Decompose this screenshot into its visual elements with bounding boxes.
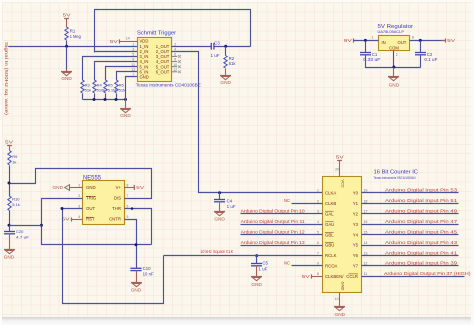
wire THR loop xyxy=(125,209,152,245)
svg-text:C3: C3 xyxy=(214,41,220,46)
capacitor C3 xyxy=(210,43,212,50)
svg-text:GAU: GAU xyxy=(325,222,334,227)
wire input pin 39 xyxy=(362,265,459,267)
svg-text:5V: 5V xyxy=(5,140,13,145)
junction divider/TRIG xyxy=(40,224,43,227)
wire C2 to ground rail xyxy=(420,56,422,68)
svg-text:Texas Instruments CD40106BE: Texas Instruments CD40106BE xyxy=(136,82,201,87)
wire NC to CLKB xyxy=(292,203,323,205)
svg-text:5V: 5V xyxy=(302,274,310,279)
power port 5V at V+ xyxy=(124,185,144,190)
svg-text:8: 8 xyxy=(127,183,129,187)
svg-text:18: 18 xyxy=(364,199,368,203)
svg-text:Y6: Y6 xyxy=(353,253,359,258)
svg-text:1 Meg: 1 Meg xyxy=(70,34,82,39)
ground below R1 xyxy=(66,70,68,72)
resistor R10 xyxy=(8,196,11,211)
svg-text:8: 8 xyxy=(317,272,319,276)
junction C3/R2 xyxy=(224,45,227,48)
wire input pin 45 xyxy=(362,234,459,236)
resistor R2 xyxy=(224,56,227,69)
svg-text:GND: GND xyxy=(4,255,15,260)
svg-text:4.7 uF: 4.7 uF xyxy=(16,235,30,240)
svg-text:7: 7 xyxy=(127,194,129,198)
counter pin names xyxy=(325,180,359,291)
ground below R2 xyxy=(225,69,227,76)
svg-text:3: 3 xyxy=(317,210,319,214)
svg-text:51k: 51k xyxy=(229,61,237,66)
capacitor C4 xyxy=(219,193,221,200)
svg-text:2: 2 xyxy=(317,199,319,203)
svg-text:6_OUT: 6_OUT xyxy=(156,69,170,74)
wire ground bus xyxy=(83,99,126,101)
wire RCLK clock line xyxy=(164,255,323,257)
wire Schmitt 1_OUT to C3 xyxy=(172,46,212,48)
svg-text:1: 1 xyxy=(78,183,80,187)
svg-text:GBL: GBL xyxy=(325,232,334,237)
svg-text:Y1: Y1 xyxy=(353,201,359,206)
junction C5 top xyxy=(255,254,258,257)
svg-text:OUT: OUT xyxy=(86,206,95,211)
svg-text:5V: 5V xyxy=(63,12,71,17)
wire Schmitt 3_IN to R3 xyxy=(83,57,138,81)
junction OUT corner xyxy=(61,207,64,210)
svg-text:5V: 5V xyxy=(136,185,144,190)
svg-text:1: 1 xyxy=(132,42,134,46)
junction R4 bus xyxy=(93,98,96,101)
svg-text:2: 2 xyxy=(396,53,398,57)
svg-text:16 Bit Counter IC: 16 Bit Counter IC xyxy=(374,169,419,175)
svg-text:V+: V+ xyxy=(116,185,122,190)
wire input pin 47 xyxy=(362,224,459,226)
wire signal node down to ground xyxy=(66,47,68,70)
svg-text:0.1 uF: 0.1 uF xyxy=(424,57,437,62)
svg-text:IN: IN xyxy=(382,40,386,45)
junction node A xyxy=(8,182,11,185)
wire TRIG to timing node xyxy=(42,199,152,245)
svg-text:5V: 5V xyxy=(110,39,118,44)
svg-text:5: 5 xyxy=(127,215,129,219)
svg-text:Y3: Y3 xyxy=(353,222,359,227)
svg-text:3: 3 xyxy=(132,47,134,51)
svg-text:1k: 1k xyxy=(12,160,16,165)
svg-text:Y4: Y4 xyxy=(353,232,359,237)
svg-text:6: 6 xyxy=(127,204,129,208)
svg-text:GND: GND xyxy=(341,282,346,291)
ground below regulator xyxy=(393,68,395,77)
wire counter GND pin xyxy=(339,293,341,307)
svg-text:Arduino Digital Output Pin 11: Arduino Digital Output Pin 11 xyxy=(241,219,305,224)
svg-text:C4: C4 xyxy=(227,198,233,203)
svg-text:4: 4 xyxy=(317,220,319,224)
svg-text:Arduino Digital Input Pin 41: Arduino Digital Input Pin 41 xyxy=(385,250,458,255)
svg-text:Arduino Digital Input Pin 53: Arduino Digital Input Pin 53 xyxy=(385,188,458,193)
ground below C5 xyxy=(256,266,258,277)
svg-text:1 uF: 1 uF xyxy=(211,53,220,58)
capacitor C5 xyxy=(256,256,258,264)
svg-text:14: 14 xyxy=(364,241,368,245)
junction C1 top xyxy=(364,39,367,42)
svg-text:17: 17 xyxy=(364,210,368,214)
svg-text:6_IN: 6_IN xyxy=(140,69,149,74)
power port 5V at CLKBEN xyxy=(311,274,313,278)
svg-text:R2: R2 xyxy=(229,56,235,61)
svg-text:COM: COM xyxy=(389,45,399,50)
no-connect pins 3_OUT-6_OUT xyxy=(172,55,181,73)
svg-text:Arduino Digital Input Pin 39: Arduino Digital Input Pin 39 xyxy=(385,261,458,266)
svg-text:8: 8 xyxy=(412,36,414,40)
svg-text:GBU: GBU xyxy=(325,243,334,248)
wire output pin 11 to counter xyxy=(241,224,323,226)
counter U4 SN74LV8154N body xyxy=(323,169,419,292)
svg-text:THR: THR xyxy=(112,206,121,211)
svg-text:5.1k: 5.1k xyxy=(12,202,20,207)
ground below resistor bus xyxy=(125,100,127,109)
svg-text:Arduino Digital Input Pin 47: Arduino Digital Input Pin 47 xyxy=(385,219,458,224)
wire input pin 41 xyxy=(362,255,459,257)
svg-text:Texas Instruments SN74LV8154N: Texas Instruments SN74LV8154N xyxy=(374,176,417,180)
svg-text:9V: 9V xyxy=(344,38,352,43)
wire input pin 51 xyxy=(362,203,459,205)
svg-text:Signal In (500Hz sq. wave): Signal In (500Hz sq. wave) xyxy=(3,42,9,116)
wire DIS to divider node A xyxy=(10,169,152,199)
resistor R1 xyxy=(65,27,68,40)
wire regulator OUT to 5V xyxy=(410,40,446,42)
svg-text:GND: GND xyxy=(86,185,96,190)
wire regulator COM to rail xyxy=(393,51,395,68)
wire signal input to Schmitt 1_IN xyxy=(9,46,138,48)
wire input pin 49 xyxy=(362,213,459,215)
resistor R6 xyxy=(115,80,118,93)
svg-text:16: 16 xyxy=(364,220,368,224)
svg-text:Schmitt Trigger: Schmitt Trigger xyxy=(137,30,176,36)
svg-text:Arduino Digital Input Pin 43: Arduino Digital Input Pin 43 xyxy=(385,240,458,245)
wire node B to TRIG riser xyxy=(10,225,42,227)
svg-text:Arduino Digital Output Pin 10: Arduino Digital Output Pin 10 xyxy=(241,208,305,213)
svg-text:13: 13 xyxy=(364,251,368,255)
svg-text:13: 13 xyxy=(131,68,135,72)
svg-text:GND: GND xyxy=(251,282,262,287)
wire Schmitt 5_IN to R5 xyxy=(106,67,138,81)
svg-text:GND: GND xyxy=(120,113,131,118)
svg-text:5: 5 xyxy=(132,53,134,57)
capacitor C1 xyxy=(365,41,367,53)
wire Schmitt 4_IN to R4 xyxy=(95,62,138,81)
svg-text:UA78L05ACLP: UA78L05ACLP xyxy=(378,29,405,34)
resistor R3 xyxy=(81,80,84,93)
svg-text:GND: GND xyxy=(61,76,72,81)
svg-text:C5: C5 xyxy=(262,261,268,266)
wire CCLR tie high xyxy=(362,276,465,278)
svg-text:1 uF: 1 uF xyxy=(227,204,236,209)
ground below counter xyxy=(339,306,341,308)
svg-text:GND: GND xyxy=(131,288,142,293)
svg-text:GAL: GAL xyxy=(325,211,334,216)
svg-text:11: 11 xyxy=(131,63,135,67)
ground below C20 xyxy=(9,234,11,250)
wire to Schmitt 2_IN xyxy=(95,51,138,53)
junction node B xyxy=(8,224,11,227)
svg-text:CNTR: CNTR xyxy=(109,217,121,222)
wire R4 to ground bus xyxy=(94,94,96,100)
svg-text:1: 1 xyxy=(372,36,374,40)
svg-text:GND: GND xyxy=(389,83,400,88)
svg-text:9: 9 xyxy=(132,58,134,62)
svg-text:Arduino Digital Input Pin 51: Arduino Digital Input Pin 51 xyxy=(385,198,458,203)
wire Schmitt GND pin to bus xyxy=(126,77,138,100)
wire input pin 43 xyxy=(362,245,459,247)
svg-text:3: 3 xyxy=(78,204,80,208)
svg-text:DIS: DIS xyxy=(114,196,121,201)
svg-text:51k: 51k xyxy=(85,87,91,92)
svg-text:Arduino Digital Output Pin 37: Arduino Digital Output Pin 37 (HIGH) xyxy=(384,271,471,276)
svg-text:2: 2 xyxy=(78,194,80,198)
junction R5 bus xyxy=(104,98,107,101)
svg-text:CLKA: CLKA xyxy=(325,191,336,196)
wire output pin 13 to counter xyxy=(241,245,323,247)
voltage regulator U3 UA78L05 body xyxy=(378,24,414,51)
svg-text:GND: GND xyxy=(220,80,231,85)
svg-text:Y2: Y2 xyxy=(353,211,359,216)
svg-text:GND: GND xyxy=(53,185,64,190)
power port 9V input xyxy=(353,38,355,42)
resistor R4 xyxy=(93,80,96,93)
wire feedback top rail xyxy=(95,10,251,53)
pin 14 VDD power port 5V xyxy=(119,39,121,43)
wire NC to RCOA xyxy=(292,265,323,267)
svg-text:4: 4 xyxy=(78,215,80,219)
wire Schmitt 2_OUT to counter CLKA xyxy=(172,52,323,193)
wire C1 to ground rail xyxy=(366,56,421,68)
svg-text:1: 1 xyxy=(317,189,319,193)
wire output pin 12 to counter xyxy=(241,234,323,236)
wire R9 to node A xyxy=(9,166,11,184)
pin numbers Schmitt left xyxy=(131,42,135,77)
wire R10 to node B xyxy=(9,211,11,226)
svg-text:C20: C20 xyxy=(16,229,24,234)
svg-text:10: 10 xyxy=(335,297,339,301)
svg-text:14: 14 xyxy=(126,36,130,40)
svg-text:NC: NC xyxy=(284,261,290,266)
svg-text:Arduino Digital Output Pin 13: Arduino Digital Output Pin 13 xyxy=(241,240,305,245)
pin numbers NE555 xyxy=(78,183,128,219)
ground below C10 xyxy=(136,271,138,283)
svg-text:Y5: Y5 xyxy=(353,243,359,248)
svg-text:GND: GND xyxy=(335,312,346,317)
junction signal/R1 xyxy=(65,45,68,48)
svg-text:20: 20 xyxy=(335,167,339,171)
svg-text:OUT: OUT xyxy=(397,40,406,45)
junction C2 top xyxy=(419,39,422,42)
power port 5V output xyxy=(445,38,447,42)
svg-text:10 kHz Square CLK: 10 kHz Square CLK xyxy=(200,249,233,254)
capacitor C10 xyxy=(130,267,141,269)
svg-text:C10: C10 xyxy=(143,266,151,271)
wire R1 to signal node xyxy=(66,41,68,47)
pin numbers counter xyxy=(317,167,367,301)
wire R6 to ground bus xyxy=(116,94,118,100)
junction R6 bus xyxy=(115,98,118,101)
junction GND riser bus xyxy=(124,98,127,101)
svg-text:Arduino Digital Input Pin 45: Arduino Digital Input Pin 45 xyxy=(385,230,458,235)
resistor R5 xyxy=(104,80,107,93)
svg-text:1 uF: 1 uF xyxy=(258,266,267,271)
svg-text:5V: 5V xyxy=(336,154,344,159)
svg-text:GND: GND xyxy=(140,75,149,80)
capacitor C2 xyxy=(420,41,422,53)
svg-text:7: 7 xyxy=(317,251,319,255)
junction CNTR/timing xyxy=(135,243,138,246)
svg-text:GND: GND xyxy=(214,216,225,221)
svg-text:Arduino Digital Output Pin 12: Arduino Digital Output Pin 12 xyxy=(241,230,305,235)
wire R5 to ground bus xyxy=(105,94,107,100)
svg-text:RCOA: RCOA xyxy=(325,263,338,268)
svg-text:Y7: Y7 xyxy=(353,263,359,268)
svg-text:7: 7 xyxy=(132,73,134,77)
svg-text:6: 6 xyxy=(317,241,319,245)
wire OUT down xyxy=(63,209,164,304)
svg-text:R9: R9 xyxy=(12,154,18,159)
junction C4 xyxy=(218,191,221,194)
svg-text:5V: 5V xyxy=(447,38,455,43)
svg-text:RCLK: RCLK xyxy=(325,253,337,258)
wire CNTR to C10 xyxy=(125,220,137,269)
svg-text:2: 2 xyxy=(174,42,176,46)
svg-text:Arduino Digital Input Pin 49: Arduino Digital Input Pin 49 xyxy=(385,208,458,213)
svg-text:10 nF: 10 nF xyxy=(143,272,154,277)
wire junction to R2 xyxy=(225,47,227,56)
timer U1 NE555 body xyxy=(83,175,125,225)
ground port at NE555 pin 1 xyxy=(53,185,83,191)
resistor R9 xyxy=(8,151,11,166)
svg-text:VCC: VCC xyxy=(341,180,346,189)
wire output pin 10 to counter xyxy=(241,213,323,215)
junction COM/rail xyxy=(392,66,395,69)
ground below C4 xyxy=(219,202,221,212)
wire R3 to ground bus xyxy=(82,94,84,100)
svg-text:4: 4 xyxy=(174,47,176,51)
wire C3 to feedback riser xyxy=(214,46,251,48)
wire node A down to R10 xyxy=(9,184,11,197)
op-amp U2 Schmitt Trigger CD40106BE body xyxy=(136,30,201,87)
pin numbers Schmitt right xyxy=(173,42,177,72)
svg-text:NE555: NE555 xyxy=(83,175,102,182)
svg-text:R10: R10 xyxy=(12,196,20,201)
svg-text:11: 11 xyxy=(364,272,368,276)
svg-text:CLKB: CLKB xyxy=(325,201,336,206)
power port 5V at RST xyxy=(71,217,73,221)
wire Schmitt 6_IN to R6 xyxy=(117,72,138,81)
svg-text:R1: R1 xyxy=(70,28,76,33)
svg-text:NC: NC xyxy=(284,198,290,203)
junction THR pin xyxy=(131,207,134,210)
capacitor C20 xyxy=(9,226,11,232)
svg-text:CLKBEN/: CLKBEN/ xyxy=(325,274,344,279)
wire 9V to regulator IN xyxy=(354,40,379,42)
svg-text:CCLR: CCLR xyxy=(346,274,358,279)
wire input pin 53 xyxy=(362,192,459,194)
svg-text:Y0: Y0 xyxy=(353,191,359,196)
